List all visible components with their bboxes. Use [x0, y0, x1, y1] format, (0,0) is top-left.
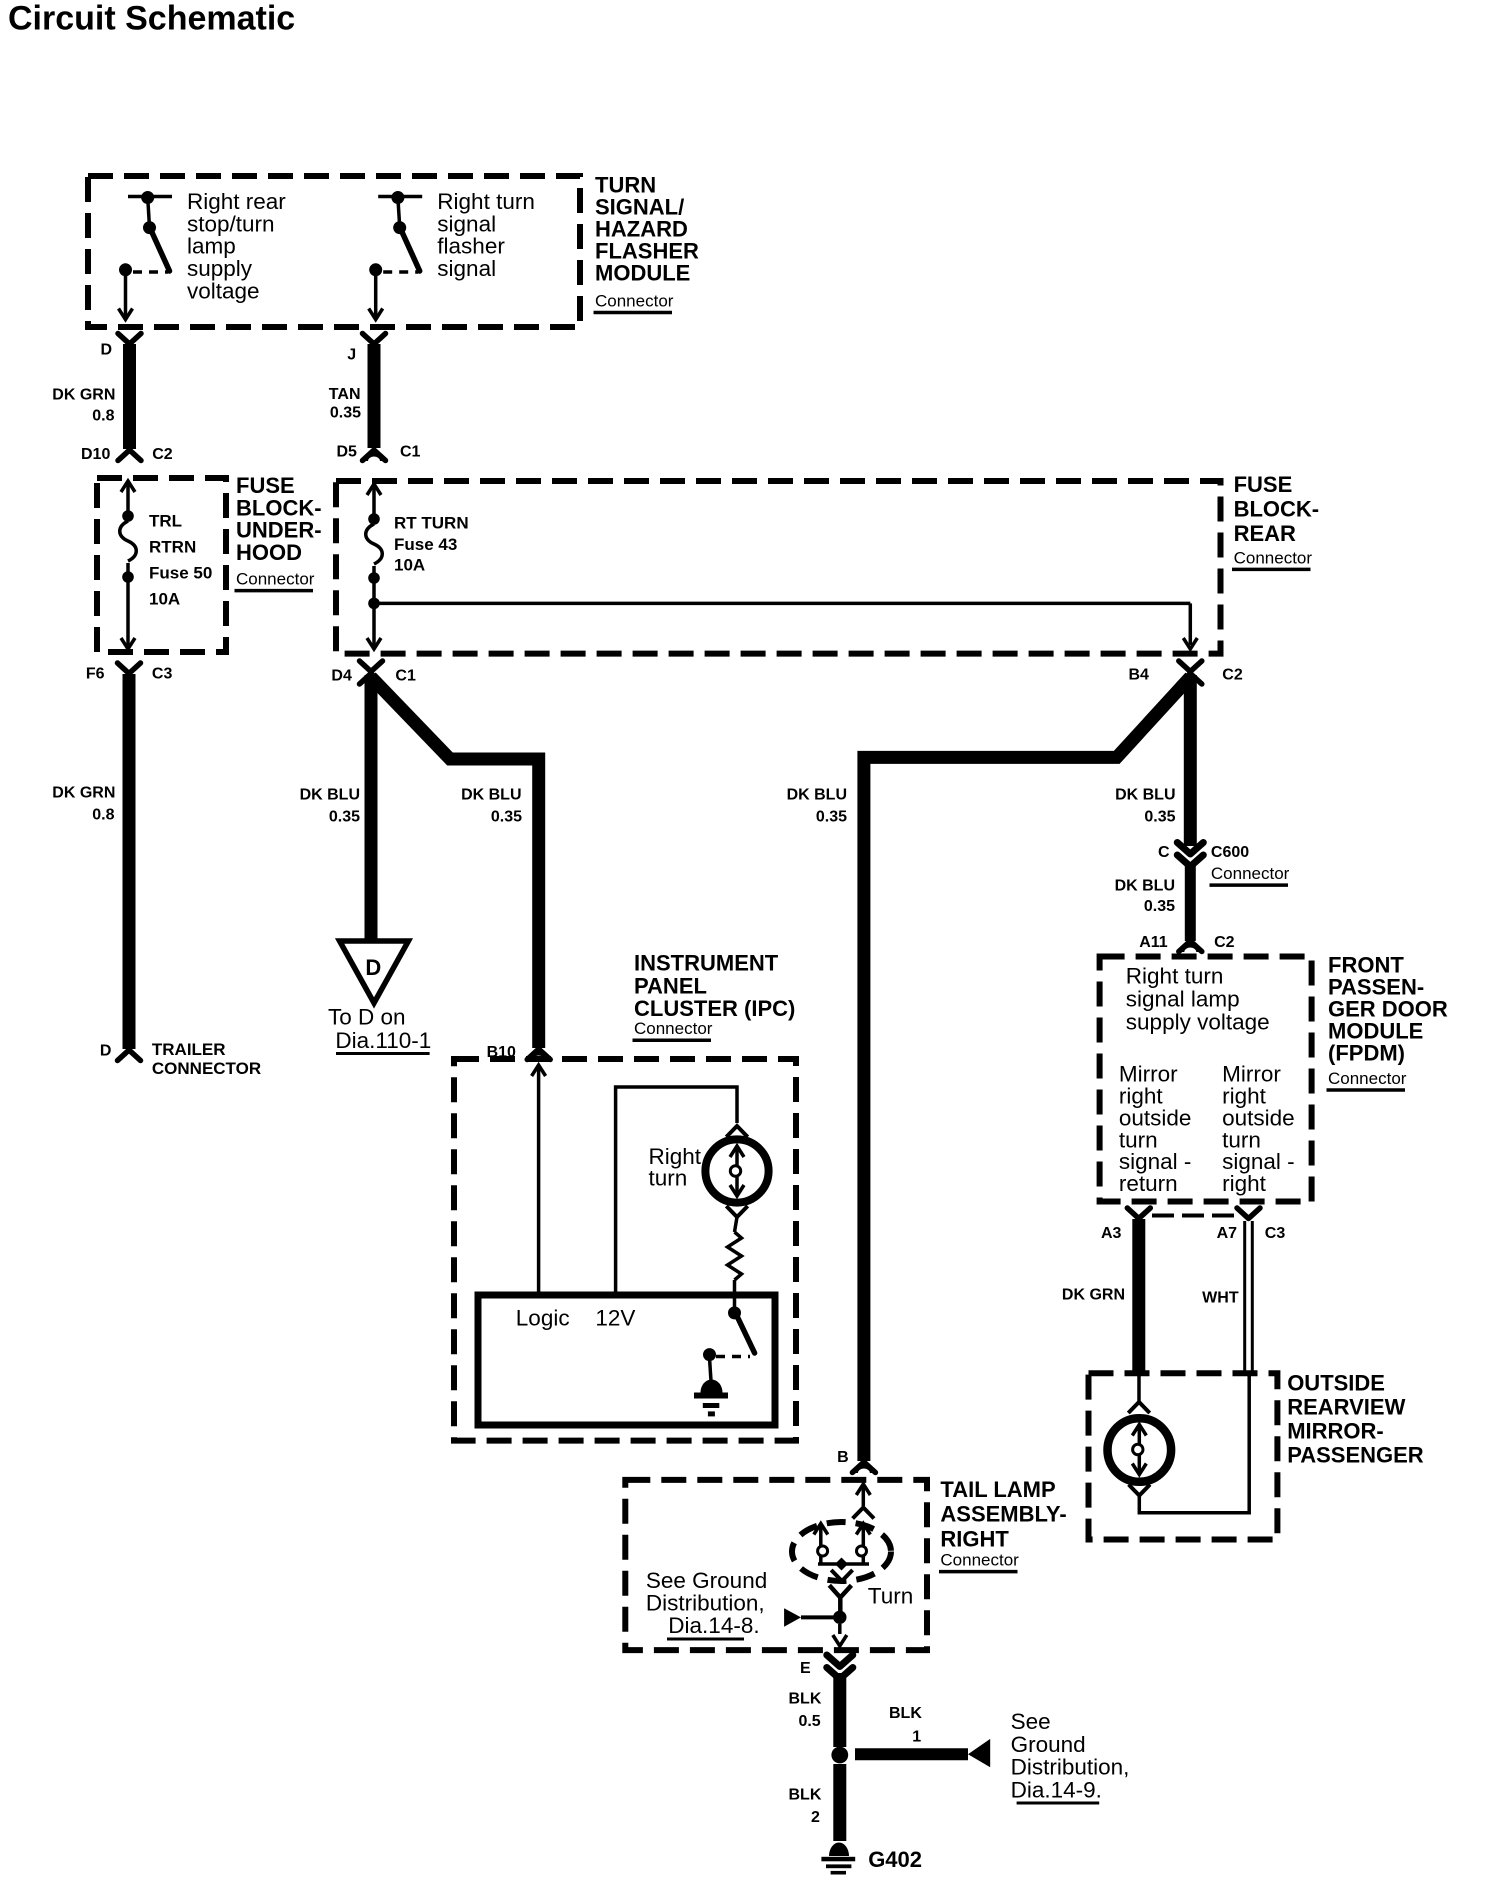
- svg-text:C2: C2: [1222, 667, 1243, 684]
- svg-text:Distribution,: Distribution,: [1011, 1755, 1130, 1780]
- svg-text:TAN: TAN: [329, 386, 361, 403]
- svg-text:Connector: Connector: [634, 1019, 713, 1038]
- svg-text:supply voltage: supply voltage: [1126, 1009, 1270, 1034]
- svg-text:See: See: [1011, 1709, 1051, 1734]
- svg-text:Connector: Connector: [1211, 864, 1290, 883]
- svg-text:0.35: 0.35: [816, 809, 847, 826]
- svg-text:D4: D4: [331, 668, 352, 685]
- svg-text:1: 1: [912, 1728, 921, 1745]
- svg-text:Connector: Connector: [940, 1551, 1019, 1570]
- svg-text:HOOD: HOOD: [236, 540, 302, 565]
- svg-text:C: C: [1158, 844, 1170, 861]
- svg-text:0.35: 0.35: [329, 809, 360, 826]
- svg-text:B: B: [837, 1449, 849, 1466]
- svg-text:FUSE: FUSE: [236, 473, 295, 498]
- svg-text:CLUSTER (IPC): CLUSTER (IPC): [634, 996, 795, 1021]
- svg-text:FUSE: FUSE: [1234, 472, 1293, 497]
- svg-text:BLK: BLK: [789, 1787, 822, 1804]
- svg-text:0.35: 0.35: [330, 405, 361, 422]
- svg-text:C1: C1: [395, 668, 416, 685]
- svg-text:Dia.110-1: Dia.110-1: [335, 1028, 431, 1053]
- svg-text:DK GRN: DK GRN: [1062, 1287, 1125, 1304]
- svg-text:0.8: 0.8: [92, 408, 114, 425]
- svg-text:PANEL: PANEL: [634, 974, 707, 999]
- svg-text:(FPDM): (FPDM): [1328, 1041, 1405, 1066]
- svg-text:INSTRUMENT: INSTRUMENT: [634, 951, 779, 976]
- svg-text:flasher: flasher: [437, 234, 505, 259]
- svg-text:Right turn: Right turn: [1126, 963, 1224, 988]
- svg-text:Dia.14-9.: Dia.14-9.: [1011, 1777, 1102, 1802]
- svg-text:MODULE: MODULE: [595, 261, 690, 286]
- svg-text:return: return: [1119, 1171, 1178, 1196]
- svg-text:signal: signal: [437, 256, 496, 281]
- svg-text:DK BLU: DK BLU: [461, 786, 521, 803]
- svg-text:signal: signal: [437, 211, 496, 236]
- svg-text:RTRN: RTRN: [149, 537, 196, 556]
- svg-text:DK GRN: DK GRN: [52, 386, 115, 403]
- svg-text:Right turn: Right turn: [437, 189, 535, 214]
- svg-text:TRAILER: TRAILER: [152, 1040, 226, 1059]
- svg-text:C2: C2: [1214, 934, 1235, 951]
- svg-text:DK GRN: DK GRN: [52, 785, 115, 802]
- svg-text:signal lamp: signal lamp: [1126, 986, 1240, 1011]
- svg-text:TAIL LAMP: TAIL LAMP: [940, 1477, 1055, 1502]
- svg-text:Distribution,: Distribution,: [646, 1590, 765, 1615]
- svg-text:RT TURN: RT TURN: [394, 514, 469, 533]
- svg-text:voltage: voltage: [187, 279, 260, 304]
- svg-text:BLOCK-: BLOCK-: [236, 495, 322, 520]
- svg-text:A7: A7: [1217, 1225, 1238, 1242]
- svg-text:right: right: [1222, 1171, 1267, 1196]
- svg-text:0.5: 0.5: [798, 1713, 820, 1730]
- svg-text:Connector: Connector: [236, 570, 315, 589]
- svg-text:BLK: BLK: [889, 1705, 922, 1722]
- svg-text:Turn: Turn: [868, 1583, 913, 1608]
- svg-text:Circuit Schematic: Circuit Schematic: [8, 0, 295, 38]
- svg-text:Dia.14-8.: Dia.14-8.: [668, 1613, 759, 1638]
- svg-text:G402: G402: [868, 1847, 922, 1872]
- svg-text:D: D: [365, 955, 381, 980]
- svg-text:BLOCK-: BLOCK-: [1234, 496, 1320, 521]
- svg-text:DK BLU: DK BLU: [1115, 877, 1175, 894]
- svg-text:ASSEMBLY-: ASSEMBLY-: [940, 1502, 1066, 1527]
- svg-text:See Ground: See Ground: [646, 1568, 767, 1593]
- svg-text:D10: D10: [81, 446, 110, 463]
- svg-text:supply: supply: [187, 256, 253, 281]
- svg-text:TRL: TRL: [149, 511, 182, 530]
- svg-text:PASSENGER: PASSENGER: [1287, 1442, 1424, 1467]
- svg-text:Logic: Logic: [516, 1305, 570, 1330]
- svg-text:REARVIEW: REARVIEW: [1287, 1395, 1405, 1420]
- svg-text:0.35: 0.35: [491, 809, 522, 826]
- svg-text:A3: A3: [1101, 1225, 1122, 1242]
- svg-text:D: D: [100, 1043, 112, 1060]
- svg-text:A11: A11: [1139, 934, 1168, 951]
- svg-text:BLK: BLK: [789, 1691, 822, 1708]
- svg-text:Fuse 43: Fuse 43: [394, 535, 457, 554]
- svg-text:J: J: [347, 347, 356, 364]
- svg-text:CONNECTOR: CONNECTOR: [152, 1059, 261, 1078]
- svg-text:C2: C2: [152, 446, 173, 463]
- svg-text:12V: 12V: [595, 1305, 635, 1330]
- svg-text:Connector: Connector: [1234, 548, 1313, 567]
- svg-text:B4: B4: [1129, 667, 1150, 684]
- svg-text:10A: 10A: [394, 556, 425, 575]
- svg-text:Fuse 50: Fuse 50: [149, 563, 212, 582]
- svg-text:10A: 10A: [149, 589, 180, 608]
- svg-text:turn: turn: [649, 1165, 688, 1190]
- svg-text:lamp: lamp: [187, 234, 236, 259]
- svg-text:WHT: WHT: [1202, 1290, 1239, 1307]
- svg-text:DK BLU: DK BLU: [1115, 786, 1175, 803]
- svg-text:stop/turn: stop/turn: [187, 211, 275, 236]
- svg-text:MIRROR-: MIRROR-: [1287, 1419, 1384, 1444]
- svg-text:DK BLU: DK BLU: [300, 786, 360, 803]
- svg-text:OUTSIDE: OUTSIDE: [1287, 1371, 1385, 1396]
- svg-text:C1: C1: [400, 444, 421, 461]
- svg-text:D: D: [101, 342, 113, 359]
- svg-text:2: 2: [811, 1809, 820, 1826]
- svg-text:REAR: REAR: [1234, 521, 1296, 546]
- svg-text:Right rear: Right rear: [187, 189, 286, 214]
- svg-text:C3: C3: [152, 665, 173, 682]
- svg-text:RIGHT: RIGHT: [940, 1527, 1009, 1552]
- svg-text:D5: D5: [337, 444, 358, 461]
- svg-text:E: E: [800, 1660, 811, 1677]
- svg-text:UNDER-: UNDER-: [236, 518, 322, 543]
- svg-text:Connector: Connector: [1328, 1069, 1407, 1088]
- svg-text:C600: C600: [1211, 844, 1249, 861]
- svg-text:To D on: To D on: [328, 1005, 406, 1030]
- svg-text:Connector: Connector: [595, 292, 674, 311]
- svg-text:0.35: 0.35: [1144, 898, 1175, 915]
- svg-text:Ground: Ground: [1011, 1732, 1086, 1757]
- svg-text:C3: C3: [1265, 1225, 1286, 1242]
- svg-text:F6: F6: [86, 665, 105, 682]
- svg-text:DK BLU: DK BLU: [787, 786, 847, 803]
- svg-text:0.8: 0.8: [92, 806, 114, 823]
- svg-text:0.35: 0.35: [1144, 809, 1175, 826]
